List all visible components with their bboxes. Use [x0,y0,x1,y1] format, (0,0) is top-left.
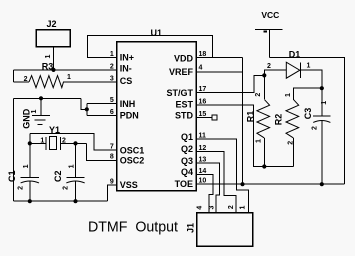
wire OSC2 pin 8 [86,143,116,160]
wire GND left vertical [12,98,14,201]
svg-text:2: 2 [267,63,271,70]
node C1 to rail [28,199,32,203]
svg-text:2: 2 [228,205,235,209]
wire STD pin 15 stub [196,117,212,119]
svg-text:1: 1 [45,54,52,58]
resistor R2 [274,93,299,167]
svg-text:C3: C3 [303,108,313,120]
svg-text:IN-: IN- [120,64,132,74]
node C2 to rail [73,199,77,203]
wire Q4 pin 14 to J1 pin 4 [196,174,213,213]
svg-text:C1: C1 [7,170,17,182]
wire OSC1 pin 7 [30,134,117,151]
svg-text:VCC: VCC [261,10,279,20]
ground symbol [21,98,50,129]
no-connect marker STD [212,115,217,120]
svg-text:INH: INH [120,99,136,109]
svg-text:10: 10 [199,178,207,185]
node J2 to IN- junction [51,68,55,72]
svg-text:2: 2 [288,141,295,145]
resistor R3 [14,74,117,88]
wire VDD pin 18 [196,57,242,59]
svg-text:3: 3 [209,205,216,209]
svg-text:DTMF Output: DTMF Output [88,219,179,236]
node ST/GT, D1 anode, R1 junction [262,73,266,77]
svg-text:1: 1 [67,74,71,81]
svg-text:14: 14 [199,168,207,175]
svg-text:2: 2 [18,186,25,190]
svg-text:CS: CS [120,76,133,86]
svg-text:2: 2 [62,137,66,144]
pin names right column [167,53,194,189]
node vertical to TOE rail [240,182,244,186]
wire EST pin 16 [196,105,293,167]
connector J2 [36,19,70,47]
svg-text:2: 2 [24,76,28,83]
svg-text:1: 1 [321,101,328,105]
svg-text:J1: J1 [186,223,196,233]
wire VREF-VDD-TOE vertical [242,58,244,185]
svg-text:18: 18 [199,51,207,58]
pin numbers left [110,51,114,186]
svg-text:4: 4 [199,65,203,72]
wire IN+ loop over IC [87,35,212,57]
wire IN- to R3 left vertical [13,70,15,82]
svg-text:1: 1 [307,63,311,70]
svg-text:ST/GT: ST/GT [167,88,194,98]
resistor R1 [246,75,270,166]
svg-text:STD: STD [175,111,194,121]
svg-text:VDD: VDD [174,53,194,63]
wire J2 pin 1 stub [45,47,53,70]
svg-text:Q3: Q3 [181,156,193,166]
wire VREF pin 4 [196,71,242,73]
wire cathode node to R2 top [293,88,322,100]
node GND symbol junction [39,96,43,100]
capacitor C2 [53,164,84,201]
svg-text:13: 13 [199,157,207,164]
svg-text:OSC2: OSC2 [120,156,145,166]
power VCC symbol [255,10,283,58]
svg-text:R2: R2 [274,114,284,126]
svg-text:TOE: TOE [175,179,193,189]
node D1 cathode, R2, C3 junction [320,86,324,90]
svg-text:7: 7 [110,143,114,150]
svg-text:1: 1 [256,139,263,143]
connector J1 [186,205,253,246]
pin numbers right [199,51,207,185]
capacitor C1 [7,164,39,201]
IC U1 DTMF decoder body [117,28,197,191]
svg-text:8: 8 [110,154,114,161]
svg-text:1: 1 [240,205,247,209]
wire INH pin 5 [87,103,117,115]
svg-text:2: 2 [255,93,262,97]
node R1 bottom junction [262,164,266,168]
wire GND bottom rail [13,200,107,202]
svg-text:16: 16 [199,99,207,106]
svg-text:2: 2 [312,126,319,130]
wire Q1 pin 11 to J1 pin 1 [196,139,248,213]
svg-text:C2: C2 [53,170,63,182]
diode D1 [264,50,322,89]
svg-text:VSS: VSS [120,180,138,190]
svg-text:4: 4 [197,206,204,210]
wire PDN pin 6 [87,114,117,116]
svg-text:1: 1 [68,164,75,168]
svg-text:D1: D1 [289,50,301,60]
wire VSS pin 9 [107,185,116,201]
svg-text:GND: GND [21,108,31,129]
svg-text:Q1: Q1 [181,132,193,142]
wire Y1 right to C2 [75,143,77,177]
wire crystal left vertical to C1 [29,134,31,178]
node INH-PDN tie [85,107,89,111]
svg-text:12: 12 [199,145,207,152]
wire GND top line [13,97,81,99]
wire IN- line [14,69,117,71]
svg-text:VREF: VREF [169,67,194,77]
wire VCC to right rail [269,58,344,185]
wire TOE bottom rail [196,183,344,185]
crystal Y1 [30,125,87,150]
svg-text:1: 1 [23,164,30,168]
svg-text:11: 11 [199,133,207,140]
wire Q3 pin 13 to J1 pin 3 [196,163,219,213]
svg-text:U1: U1 [151,28,163,38]
svg-text:IN+: IN+ [120,53,134,63]
node Y1 right lead [73,141,77,145]
wire ST/GT pin 17 [196,75,264,92]
capacitor C3 [303,88,330,184]
svg-text:PDN: PDN [120,111,139,121]
svg-text:Q2: Q2 [181,144,193,154]
svg-text:2: 2 [63,186,70,190]
svg-text:1: 1 [285,93,292,97]
wire INH PDN feed from ground [81,98,87,109]
svg-text:1: 1 [31,109,38,113]
svg-text:Q4: Q4 [181,167,193,177]
pin names left column [120,53,145,191]
svg-text:17: 17 [199,86,207,93]
svg-text:OSC1: OSC1 [120,145,145,155]
svg-text:J2: J2 [46,19,56,29]
node Y1 left lead [28,141,32,145]
node C3 bottom to rail [320,182,324,186]
svg-text:EST: EST [175,100,193,110]
svg-text:Y1: Y1 [49,125,60,135]
svg-text:15: 15 [199,111,207,118]
wire Q2 pin 12 to J1 pin 2 [196,151,236,213]
svg-text:1: 1 [40,137,44,144]
